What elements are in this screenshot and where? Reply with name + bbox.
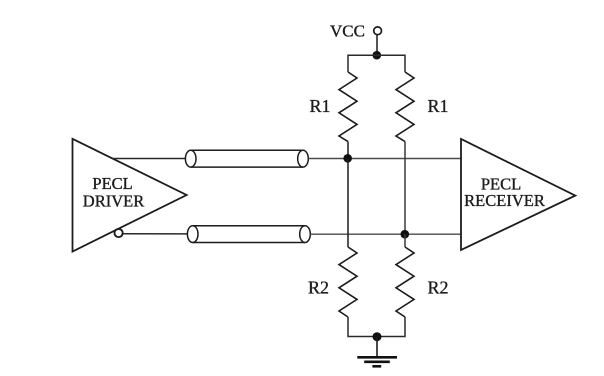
wire driver inverting output to bottom transmission line: [123, 233, 187, 235]
transmission line T1 (top coax cylinder): [185, 150, 308, 167]
svg-text:R1: R1: [427, 96, 448, 116]
wire R1 right down to bottom line (crosses top line): [404, 142, 406, 235]
wire driver noninverting output to top transmission line: [112, 158, 185, 160]
wire VCC rail with corner leads: [348, 55, 405, 72]
inversion bubble on driver inverting output: [115, 229, 123, 237]
resistor R2 (left): [339, 247, 357, 317]
resistor R2 (right): [396, 247, 414, 317]
wire VCC terminal to rail: [376, 35, 378, 55]
wire top line from T1 to receiver input: [308, 158, 461, 160]
svg-text:VCC: VCC: [330, 22, 365, 41]
resistor R1 (left): [339, 72, 357, 142]
ground symbol: [357, 357, 397, 366]
wire ground stub: [376, 337, 378, 357]
transmission line T2 (bottom coax cylinder): [187, 226, 310, 243]
op-amp U1 PECL driver triangle: [73, 139, 187, 252]
junction dot at VCC rail: [373, 51, 382, 60]
wire bottom node down to R2 right: [404, 234, 406, 247]
VCC terminal open circle: [374, 27, 382, 35]
svg-text:R1: R1: [309, 96, 330, 116]
svg-text:R2: R2: [427, 278, 448, 298]
svg-text:DRIVER: DRIVER: [83, 192, 144, 211]
svg-text:PECL: PECL: [92, 174, 132, 193]
junction dot bottom line right node: [401, 230, 410, 239]
op-amp U2 PECL receiver triangle: [461, 139, 575, 250]
junction dot top line left node: [343, 154, 352, 163]
svg-text:RECEIVER: RECEIVER: [464, 191, 545, 210]
svg-text:R2: R2: [308, 278, 329, 298]
wire top node down to R2 left (crosses bottom line): [347, 159, 349, 248]
junction dot at ground rail: [373, 332, 382, 341]
wire R1 left to top line: [347, 142, 349, 159]
wire bottom line from T2 to receiver input: [310, 233, 461, 235]
resistor R1 (right): [396, 72, 414, 142]
wire R2 left to ground rail (corner): [348, 317, 405, 337]
